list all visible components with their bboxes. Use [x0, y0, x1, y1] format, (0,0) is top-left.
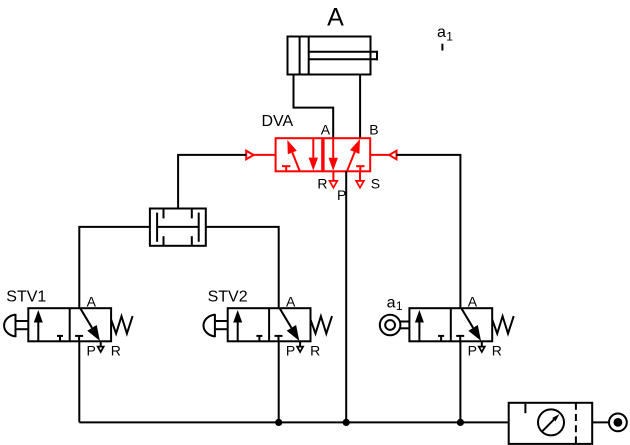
wire cylinder right port to DVA port B: [359, 75, 361, 139]
wire STV1 port A to two-pressure valve left input: [79, 227, 150, 308]
wire two-pressure valve output to DVA left pilot: [178, 155, 246, 209]
valve STV2 spring return: [311, 316, 332, 334]
valve DVA exhaust S: [359, 171, 361, 181]
two-pressure valve body: [150, 209, 206, 246]
two-pressure valve piston: [157, 226, 199, 228]
svg-text:STV1: STV1: [6, 289, 46, 306]
junction valve a1 P: [457, 419, 464, 426]
svg-text:a: a: [387, 295, 396, 312]
valve a1 spring return: [492, 316, 513, 334]
svg-text:R: R: [310, 343, 320, 359]
wire service unit to source: [592, 421, 609, 423]
junction STV2 P: [275, 419, 282, 426]
valve STV2 flow arrow A-R: [280, 308, 292, 328]
valve STV1 body: [28, 308, 111, 341]
valve DVA flow arrow A-R (right box): [332, 138, 334, 158]
valve STV2 blocked port right box: [278, 336, 280, 341]
valve STV2 body: [228, 308, 311, 341]
svg-text:R: R: [111, 343, 121, 359]
wire cylinder left port to DVA port A: [294, 75, 334, 139]
valve DVA body right box: [324, 138, 371, 171]
svg-text:1: 1: [396, 299, 403, 313]
valve STV1 push button actuator: [15, 314, 17, 337]
svg-text:P: P: [286, 343, 295, 359]
valve DVA body left box: [276, 138, 323, 171]
valve STV2 blocked port left box: [258, 336, 260, 341]
valve STV1 exhaust R: [100, 341, 102, 346]
service unit regulator dial: [538, 409, 564, 435]
valve DVA pilot port right: [370, 154, 389, 156]
valve STV2 push button actuator: [214, 314, 216, 337]
svg-text:R: R: [492, 343, 502, 359]
valve a1 exhaust R: [481, 341, 483, 346]
valve a1 flow arrow A-R: [461, 308, 473, 328]
compressed air source: [609, 414, 627, 432]
service unit body: [509, 403, 593, 444]
valve a1 blocked port right box: [459, 336, 461, 341]
svg-text:P: P: [468, 343, 477, 359]
wire DVA port P down: [345, 171, 347, 422]
valve STV1 spring return: [111, 316, 132, 334]
valve DVA pilot port left: [254, 154, 276, 156]
svg-text:B: B: [369, 122, 378, 138]
wire STV2 port A to two-pressure valve right input: [206, 227, 279, 308]
valve STV2 flow arrow P-A: [237, 323, 239, 342]
wire valve a1 port P down: [459, 341, 461, 422]
valve a1 roller actuator: [380, 315, 401, 336]
valve STV1 flow arrow P-A: [37, 323, 39, 342]
wire supply bus: [79, 421, 508, 423]
svg-text:1: 1: [446, 30, 453, 44]
valve DVA flow arrow P-B (right box): [347, 152, 355, 172]
junction DVA P: [343, 419, 350, 426]
valve STV2 exhaust R: [299, 341, 301, 346]
svg-text:S: S: [371, 176, 380, 192]
svg-text:A: A: [87, 294, 97, 310]
wire STV1 port P down: [78, 341, 80, 422]
svg-text:R: R: [317, 176, 327, 192]
service unit inlet tick: [524, 404, 526, 413]
valve a1 body: [409, 308, 492, 341]
svg-text:A: A: [286, 294, 296, 310]
svg-text:STV2: STV2: [208, 289, 248, 306]
svg-text:DVA: DVA: [262, 113, 294, 130]
wire STV2 port P down: [278, 341, 280, 422]
svg-text:A: A: [468, 294, 478, 310]
two-pressure valve seat left: [156, 213, 158, 242]
valve DVA exhaust R: [332, 171, 334, 181]
svg-text:P: P: [337, 187, 346, 203]
svg-text:A: A: [327, 4, 344, 32]
valve STV1 flow arrow A-R: [80, 308, 92, 328]
valve STV1 blocked port left box: [59, 336, 61, 341]
two-pressure valve seat right: [198, 213, 200, 242]
valve DVA flow arrow P-A (left box): [292, 153, 300, 172]
valve DVA flow arrow B-S (left box): [312, 138, 314, 157]
valve a1 flow arrow P-A: [418, 323, 420, 342]
valve a1 blocked port left box: [440, 336, 442, 341]
svg-text:P: P: [87, 343, 96, 359]
service unit separator dashed: [575, 403, 577, 444]
valve STV1 blocked port right box: [78, 336, 80, 341]
valve DVA blocked port R (left box): [285, 166, 287, 171]
svg-text:A: A: [321, 122, 331, 138]
valve DVA blocked port S (right box): [359, 166, 361, 171]
cylinder A: [288, 37, 371, 75]
wire DVA right pilot to valve a1 port A: [397, 155, 461, 308]
svg-text:a: a: [437, 24, 446, 41]
